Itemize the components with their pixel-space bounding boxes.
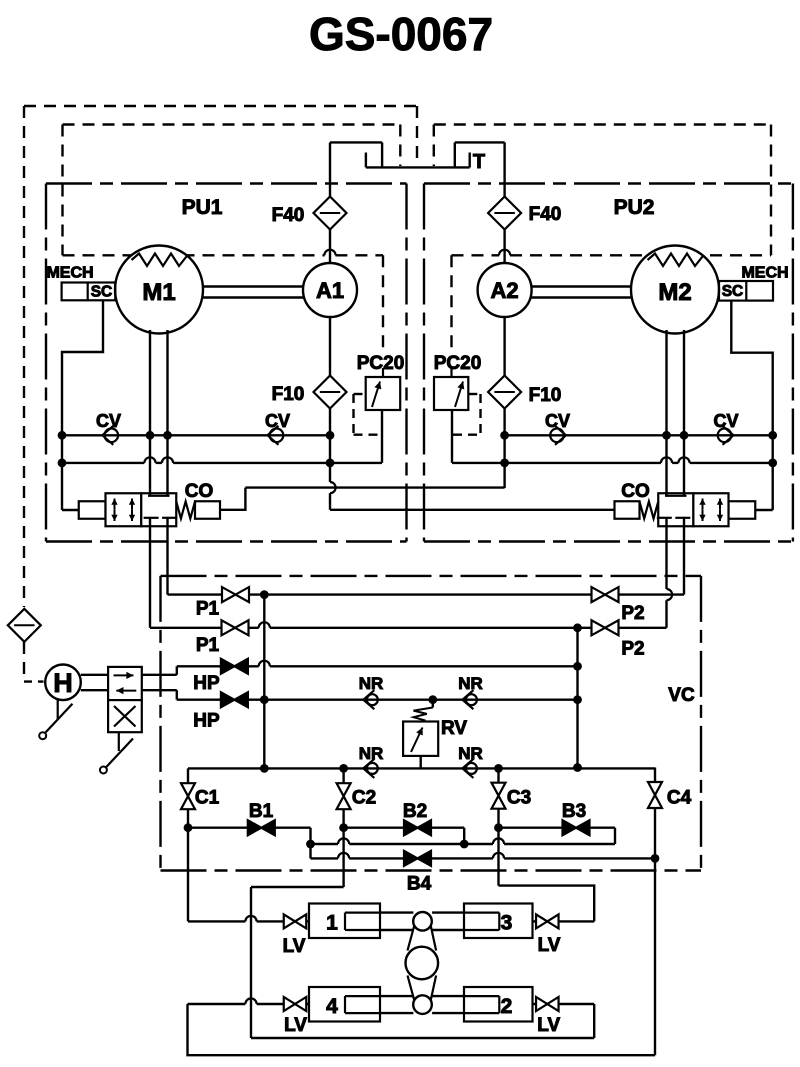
svg-text:2: 2	[501, 995, 513, 1018]
svg-text:NR: NR	[458, 744, 483, 763]
svg-text:A2: A2	[491, 278, 519, 303]
svg-text:4: 4	[326, 995, 338, 1018]
svg-text:F40: F40	[529, 204, 562, 225]
svg-text:1: 1	[326, 912, 338, 935]
svg-text:LV: LV	[284, 1015, 307, 1036]
svg-text:MECH: MECH	[46, 265, 93, 282]
svg-text:RV: RV	[441, 718, 467, 739]
svg-text:C3: C3	[507, 788, 531, 809]
svg-text:NR: NR	[359, 674, 384, 693]
svg-text:LV: LV	[538, 935, 561, 956]
svg-text:P1: P1	[196, 599, 220, 620]
svg-text:PC20: PC20	[434, 353, 482, 374]
svg-text:LV: LV	[283, 936, 306, 957]
svg-text:HP: HP	[193, 711, 220, 732]
svg-text:CV: CV	[96, 411, 121, 431]
svg-text:CO: CO	[621, 481, 650, 502]
svg-text:CV: CV	[545, 411, 570, 431]
svg-text:NR: NR	[458, 674, 483, 693]
svg-text:C4: C4	[667, 788, 692, 809]
svg-text:M1: M1	[142, 279, 175, 306]
svg-text:C2: C2	[352, 788, 376, 809]
svg-text:A1: A1	[316, 278, 344, 303]
svg-text:P1: P1	[196, 635, 220, 656]
svg-text:PU2: PU2	[614, 196, 655, 219]
svg-text:B2: B2	[403, 801, 427, 822]
svg-text:F10: F10	[272, 384, 305, 405]
svg-text:SC: SC	[91, 284, 113, 301]
svg-text:CO: CO	[185, 481, 214, 502]
svg-text:T: T	[473, 151, 485, 173]
svg-text:PC20: PC20	[357, 353, 405, 374]
svg-text:CV: CV	[713, 411, 738, 431]
svg-text:M2: M2	[658, 279, 691, 306]
svg-text:B1: B1	[249, 801, 274, 822]
svg-text:P2: P2	[621, 603, 644, 624]
svg-text:SC: SC	[722, 283, 744, 300]
svg-text:F40: F40	[272, 205, 305, 226]
svg-text:C1: C1	[195, 788, 220, 809]
svg-text:3: 3	[501, 912, 513, 935]
svg-text:MECH: MECH	[741, 265, 788, 282]
svg-text:CV: CV	[265, 411, 290, 431]
svg-text:GS-0067: GS-0067	[309, 8, 493, 60]
svg-text:PU1: PU1	[182, 196, 223, 219]
svg-text:VC: VC	[668, 685, 695, 706]
svg-text:H: H	[53, 668, 73, 698]
svg-text:HP: HP	[193, 673, 220, 694]
svg-text:B4: B4	[407, 874, 432, 895]
svg-text:F10: F10	[529, 385, 562, 406]
svg-text:P2: P2	[621, 639, 644, 660]
svg-text:B3: B3	[562, 801, 586, 822]
svg-text:LV: LV	[537, 1015, 560, 1036]
svg-text:NR: NR	[359, 744, 384, 763]
